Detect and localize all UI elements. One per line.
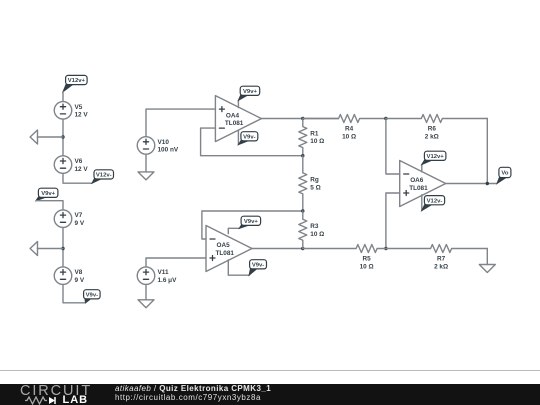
svg-text:12 V: 12 V <box>75 112 89 119</box>
svg-text:10 Ω: 10 Ω <box>360 263 374 270</box>
svg-text:1.6 μV: 1.6 μV <box>158 277 178 284</box>
svg-text:R6: R6 <box>428 126 437 133</box>
svg-text:R3: R3 <box>310 223 319 230</box>
svg-text:V6: V6 <box>75 158 83 165</box>
svg-text:R7: R7 <box>437 256 446 263</box>
svg-text:R5: R5 <box>363 256 372 263</box>
svg-text:2 kΩ: 2 kΩ <box>425 133 439 140</box>
svg-text:10 Ω: 10 Ω <box>310 231 324 238</box>
svg-text:V12v+: V12v+ <box>427 154 445 160</box>
svg-text:TL081: TL081 <box>409 185 428 192</box>
svg-text:100 nV: 100 nV <box>158 147 179 154</box>
svg-text:V5: V5 <box>75 104 83 111</box>
svg-text:2 kΩ: 2 kΩ <box>434 263 448 270</box>
svg-text:V10: V10 <box>158 139 170 146</box>
svg-text:R1: R1 <box>310 130 319 137</box>
svg-text:TL081: TL081 <box>216 250 235 257</box>
svg-text:R4: R4 <box>345 126 354 133</box>
svg-text:5 Ω: 5 Ω <box>310 184 320 191</box>
svg-text:V9v+: V9v+ <box>243 89 257 95</box>
svg-text:V11: V11 <box>158 269 169 276</box>
svg-text:V12v-: V12v- <box>427 198 443 204</box>
svg-text:TL081: TL081 <box>225 120 244 127</box>
svg-text:V7: V7 <box>75 212 83 219</box>
svg-text:Vo: Vo <box>501 171 508 177</box>
svg-text:Rg: Rg <box>310 177 319 184</box>
svg-text:V9v+: V9v+ <box>244 219 258 225</box>
svg-text:V9v-: V9v- <box>243 135 255 141</box>
svg-text:OA5: OA5 <box>217 242 231 249</box>
svg-text:12 V: 12 V <box>75 166 89 173</box>
svg-text:V8: V8 <box>75 269 83 276</box>
svg-text:V12v+: V12v+ <box>68 78 86 84</box>
svg-text:10 Ω: 10 Ω <box>310 138 324 145</box>
svg-text:9 V: 9 V <box>75 220 85 227</box>
svg-text:OA6: OA6 <box>410 177 424 184</box>
svg-text:V9v-: V9v- <box>86 293 98 299</box>
svg-text:OA4: OA4 <box>226 112 240 119</box>
svg-text:V9v-: V9v- <box>252 263 264 269</box>
svg-text:10 Ω: 10 Ω <box>342 133 356 140</box>
svg-text:V12v-: V12v- <box>96 173 112 179</box>
svg-text:V9v+: V9v+ <box>41 191 55 197</box>
svg-text:9 V: 9 V <box>75 277 85 284</box>
